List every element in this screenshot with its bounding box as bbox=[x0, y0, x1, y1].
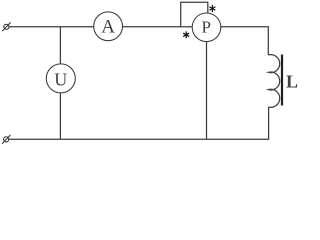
wire wattmeter bottom branch bbox=[206, 27, 208, 139]
svg-text:L: L bbox=[286, 72, 298, 92]
terminal top-left bbox=[2, 22, 10, 31]
polarity mark top (asterisk) bbox=[210, 6, 215, 12]
voltmeter U1 bbox=[46, 64, 75, 93]
terminal bottom-left bbox=[2, 135, 10, 144]
svg-text:A: A bbox=[101, 17, 115, 38]
wattmeter P1 bbox=[192, 13, 221, 42]
inductor L coil arcs bbox=[268, 55, 279, 108]
svg-text:U: U bbox=[54, 70, 67, 90]
wire voltmeter branch bbox=[59, 27, 61, 139]
wire bottom horizontal bbox=[9, 107, 269, 139]
svg-text:P: P bbox=[201, 18, 210, 37]
wire top horizontal with right corner down to inductor bbox=[9, 27, 268, 55]
inductor core bar bbox=[281, 55, 283, 106]
polarity mark left (asterisk) bbox=[184, 32, 189, 38]
wattmeter current-coil loop bbox=[181, 2, 208, 27]
ammeter A1 bbox=[94, 12, 123, 41]
